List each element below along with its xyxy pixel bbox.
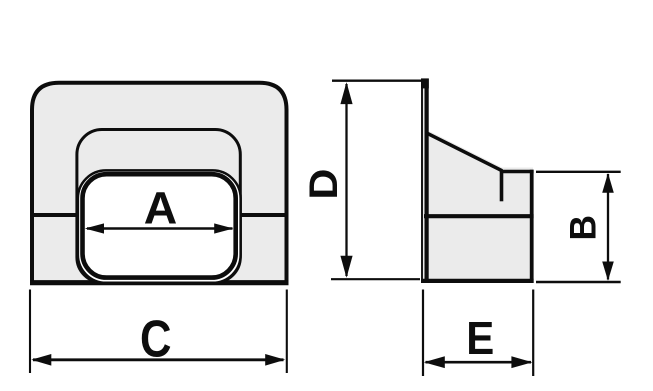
svg-text:B: B [562,215,603,241]
svg-text:D: D [302,169,346,200]
svg-text:E: E [466,312,494,364]
svg-text:A: A [144,182,178,233]
svg-text:C: C [140,310,172,368]
